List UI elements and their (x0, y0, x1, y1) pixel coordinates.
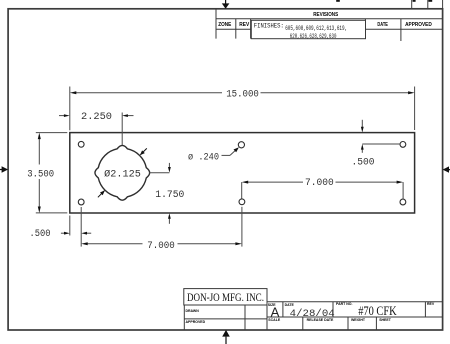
svg-text:DRAWN: DRAWN (186, 309, 200, 313)
size label (268, 303, 276, 307)
sheet label (379, 318, 392, 322)
svg-text:3.500: 3.500 (27, 169, 54, 180)
top edge truncation marks (412, 0, 443, 9)
dim .500 bottom left (61, 216, 91, 236)
rev label (427, 302, 435, 306)
release date label (307, 318, 334, 322)
svg-text:REV: REV (427, 302, 435, 306)
svg-text:DATE: DATE (285, 303, 295, 307)
dim 2.250 (59, 113, 134, 146)
svg-text:2.250: 2.250 (81, 112, 112, 123)
leader arrow NE (140, 148, 147, 155)
centering arrow right (443, 166, 450, 172)
svg-text:REVISIONS: REVISIONS (313, 12, 338, 18)
don-jo logo box (184, 289, 267, 305)
svg-text:SHEET: SHEET (379, 318, 392, 322)
centering arrow bottom (222, 330, 230, 344)
svg-text:.500: .500 (352, 158, 375, 169)
svg-text:WEIGHT: WEIGHT (351, 318, 366, 322)
scale label (268, 318, 281, 322)
svg-text:DON-JO MFG. INC.: DON-JO MFG. INC. (187, 290, 264, 304)
svg-text:ø .240: ø .240 (188, 153, 219, 164)
part no label (336, 302, 352, 306)
hole bottom-left (78, 199, 84, 205)
finishes stamp box (251, 20, 365, 38)
svg-text:7.000: 7.000 (147, 241, 175, 252)
right section (267, 301, 443, 303)
svg-text:ZONE: ZONE (218, 22, 232, 28)
revisions table (216, 9, 443, 41)
approved label (186, 320, 206, 324)
svg-text:RELEASE DATE: RELEASE DATE (307, 318, 334, 322)
svg-text:REV: REV (239, 22, 250, 28)
hole top-right (400, 142, 406, 148)
dim 15.000 (70, 87, 415, 131)
svg-text:Ø2.125: Ø2.125 (104, 168, 141, 180)
svg-text:1.750: 1.750 (155, 190, 184, 201)
centering arrow left (0, 166, 8, 172)
plate outline (70, 133, 415, 213)
hole bottom-right (400, 199, 406, 205)
svg-text:APPROVED: APPROVED (186, 320, 206, 324)
svg-text:PART NO.: PART NO. (336, 302, 352, 306)
svg-text:SCALE: SCALE (268, 318, 281, 322)
svg-text:FINISHES:: FINISHES: (254, 23, 284, 30)
dim 1.750 (149, 163, 169, 224)
dim 3.500 (36, 133, 68, 213)
hole top-left (78, 141, 84, 147)
leader .240 (222, 149, 237, 155)
svg-text:APPROVED: APPROVED (405, 22, 432, 28)
hole bottom-middle (239, 199, 245, 205)
svg-text:A: A (271, 304, 280, 319)
dim 7.000 bottom (81, 207, 242, 247)
svg-text:#70 CFK: #70 CFK (358, 304, 397, 318)
cylinder hole with tabs (95, 145, 150, 200)
leader arrow SW (98, 190, 105, 197)
title block (184, 289, 443, 330)
svg-text:DATE: DATE (377, 22, 388, 28)
drawn label (186, 309, 200, 313)
date label (285, 303, 295, 307)
weight label (351, 318, 366, 322)
svg-text:15.000: 15.000 (226, 89, 259, 100)
svg-text:620,626,628,629,630: 620,626,628,629,630 (290, 33, 337, 40)
svg-text:605,608,609,612,613,619,: 605,608,609,612,613,619, (285, 25, 347, 32)
svg-text:.500: .500 (30, 229, 51, 240)
svg-text:7.000: 7.000 (305, 178, 334, 189)
hole top-middle (.240) (238, 142, 244, 148)
dim .500 top right (362, 120, 400, 153)
dim 7.000 middle (242, 182, 403, 199)
centering arrow top (222, 0, 230, 9)
